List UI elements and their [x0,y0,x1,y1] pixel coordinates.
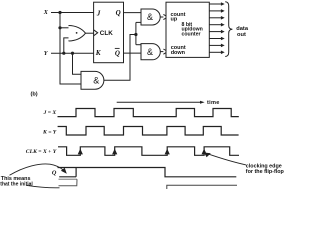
svg-text:time: time [207,100,220,106]
svg-text:down: down [171,50,186,56]
svg-text:Y: Y [44,50,49,57]
svg-text:out: out [237,32,246,38]
svg-text:X: X [43,9,49,16]
svg-text:Q: Q [116,9,121,17]
svg-text:CLK = X + Y: CLK = X + Y [26,149,57,155]
svg-text:CLK: CLK [100,30,113,37]
svg-text:up: up [171,17,178,23]
svg-text:that the initial: that the initial [0,182,33,188]
svg-text:for the flip-flop: for the flip-flop [246,169,284,175]
svg-text:K = Y: K = Y [42,130,57,136]
svg-text:&: & [93,76,99,86]
svg-text:J: J [96,9,101,17]
svg-text:&: & [147,12,153,22]
svg-text:J = X: J = X [43,110,57,116]
svg-text:(b): (b) [31,92,38,98]
svg-text:Q: Q [115,50,120,58]
svg-text:counter: counter [182,31,201,37]
svg-text:&: & [147,47,153,57]
svg-text:Q: Q [52,169,57,176]
